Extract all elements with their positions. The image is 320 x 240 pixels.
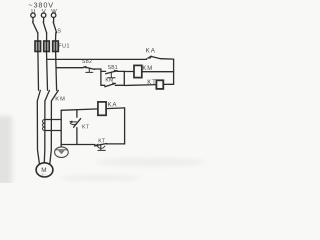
svg-text:KT: KT — [98, 138, 106, 144]
svg-text:U: U — [31, 9, 35, 15]
svg-text:KM: KM — [142, 66, 153, 72]
svg-text:KA: KA — [108, 102, 118, 109]
svg-text:S: S — [57, 28, 61, 34]
svg-text:FU1: FU1 — [58, 44, 70, 50]
svg-text:KM: KM — [55, 97, 66, 103]
svg-text:KT: KT — [147, 80, 156, 86]
svg-text:W: W — [51, 9, 57, 15]
svg-text:3~: 3~ — [41, 172, 46, 177]
svg-text:~380V: ~380V — [28, 0, 54, 9]
svg-text:SB1: SB1 — [108, 65, 118, 71]
svg-text:KT: KT — [82, 124, 90, 130]
svg-text:SB2: SB2 — [82, 59, 92, 65]
svg-text:KM: KM — [105, 78, 113, 84]
svg-text:V: V — [42, 9, 46, 15]
svg-text:KA: KA — [146, 48, 156, 55]
